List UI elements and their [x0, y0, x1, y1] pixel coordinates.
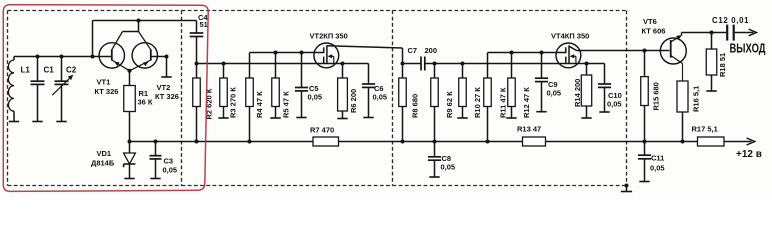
FET VT2 KP350	[310, 32, 403, 68]
svg-text:С11: С11	[651, 154, 664, 163]
output arrow VYHOD	[730, 29, 766, 55]
svg-text:R6 200: R6 200	[349, 89, 358, 113]
capacitor C6 0.05	[362, 64, 387, 118]
svg-text:L1: L1	[21, 66, 31, 75]
wire top tank rail	[14, 56, 93, 58]
shield box 3 dashed enclosure	[393, 11, 627, 186]
red highlight box around input section	[3, 5, 208, 192]
node collectors junction	[137, 19, 141, 32]
svg-text:R8 680: R8 680	[410, 94, 419, 118]
svg-text:R14 200: R14 200	[573, 79, 582, 107]
resistor R9 62K	[431, 62, 454, 144]
resistor R8 680	[399, 64, 420, 144]
resistor R1 36K	[124, 69, 153, 142]
gate wire section3	[488, 52, 566, 54]
shield box 1 (input circuit) dashed enclosure	[8, 11, 182, 186]
wire source node section3	[435, 63, 605, 65]
svg-text:R4 47 К: R4 47 К	[255, 91, 264, 118]
svg-text:R3 270 К: R3 270 К	[229, 87, 238, 118]
capacitor C7 200	[408, 46, 438, 71]
svg-text:C2: C2	[66, 66, 77, 75]
capacitor C1	[31, 55, 55, 122]
svg-text:VT2: VT2	[157, 83, 171, 92]
resistor R10 27K	[457, 62, 482, 119]
node R18 junction	[710, 31, 714, 35]
svg-text:0,05: 0,05	[308, 93, 323, 102]
svg-text:VT1: VT1	[97, 78, 111, 87]
svg-text:КТ 326: КТ 326	[155, 92, 179, 101]
capacitor C12 0.01	[712, 16, 749, 41]
resistor R16 5.1	[677, 81, 700, 144]
resistor R14 200	[573, 62, 592, 119]
svg-text:R12 47 К: R12 47 К	[522, 87, 531, 118]
svg-text:0,05: 0,05	[441, 163, 456, 172]
svg-text:КТ 606: КТ 606	[642, 27, 666, 36]
wire collector to output	[682, 32, 727, 34]
transistor VT6 KT606	[642, 17, 687, 81]
gate wire section2	[250, 52, 324, 54]
svg-text:С3: С3	[164, 157, 174, 166]
resistor R4 47K	[246, 53, 264, 144]
svg-text:0,05: 0,05	[547, 89, 562, 98]
svg-text:200: 200	[425, 46, 438, 55]
wire to top rail	[91, 21, 95, 59]
svg-text:C7: C7	[408, 46, 418, 55]
svg-text:ВЫХОД: ВЫХОД	[730, 41, 766, 55]
svg-text:51: 51	[200, 20, 208, 29]
capacitor C11 0.05	[638, 140, 665, 182]
svg-text:36 К: 36 К	[138, 98, 153, 107]
svg-text:VT4КП 350: VT4КП 350	[551, 32, 589, 41]
shield box 2 dashed enclosure	[182, 11, 393, 186]
svg-text:0,05: 0,05	[607, 100, 622, 109]
svg-text:R9 62 К: R9 62 К	[445, 91, 454, 118]
capacitor C3 0.05	[150, 140, 178, 179]
resistor R13 47	[517, 125, 546, 147]
svg-text:C1: C1	[44, 66, 55, 75]
FET VT4 KP350	[551, 32, 669, 68]
svg-text:R18 51: R18 51	[718, 53, 727, 77]
resistor R6 200	[337, 62, 358, 119]
svg-text:VT2КП 350: VT2КП 350	[310, 32, 348, 41]
svg-text:Д814Б: Д814Б	[91, 159, 115, 168]
transistor VT1 KT326	[93, 32, 139, 97]
svg-text:0,05: 0,05	[163, 166, 178, 175]
capacitor C9 0.05	[535, 51, 561, 112]
resistor R18 51	[706, 33, 727, 92]
resistor R11 47K	[484, 53, 508, 144]
ground rail top	[93, 20, 197, 22]
svg-text:R17 5,1: R17 5,1	[692, 125, 718, 134]
capacitor C4 51	[190, 13, 209, 64]
resistor R2 620K	[193, 64, 214, 144]
node VT2 base ground	[161, 55, 171, 78]
resistor R5 47K	[270, 51, 290, 119]
capacitor C8 0.05	[428, 142, 455, 178]
svg-text:R7 470: R7 470	[310, 126, 334, 135]
chassis ground of shield boxes	[621, 184, 632, 192]
resistor R3 270K	[218, 62, 237, 119]
svg-text:R5 47 К: R5 47 К	[282, 91, 291, 118]
resistor R7 470	[310, 126, 339, 147]
power rail +12V	[130, 141, 752, 143]
wire source node section2	[195, 62, 369, 66]
variable capacitor C2	[52, 55, 77, 122]
svg-text:КТ 326: КТ 326	[95, 87, 119, 96]
resistor R17 5.1	[692, 125, 725, 147]
zener diode VD1 D814B	[91, 140, 135, 179]
resistor R15 680	[641, 49, 661, 142]
+12V arrow label	[736, 138, 762, 160]
resistor R12 47K	[506, 51, 531, 119]
capacitor C5 0.05	[295, 51, 322, 118]
svg-text:VD1: VD1	[97, 149, 112, 158]
transistor VT2 KT326	[130, 32, 179, 102]
inductor L1	[8, 57, 30, 122]
svg-text:0,05: 0,05	[650, 164, 665, 173]
svg-text:VT6: VT6	[643, 17, 657, 26]
svg-text:0,05: 0,05	[373, 93, 388, 102]
svg-text:R10 27 К: R10 27 К	[473, 87, 482, 118]
capacitor C10 0.05	[598, 64, 622, 113]
svg-text:R15 680: R15 680	[652, 82, 661, 110]
wire drain to C7	[401, 48, 422, 66]
svg-text:R16 5,1: R16 5,1	[691, 86, 700, 112]
svg-text:+12 в: +12 в	[736, 149, 762, 160]
svg-text:R11 47 К: R11 47 К	[498, 87, 507, 118]
svg-text:C12 0,01: C12 0,01	[712, 16, 749, 25]
svg-text:R13 47: R13 47	[517, 125, 541, 134]
